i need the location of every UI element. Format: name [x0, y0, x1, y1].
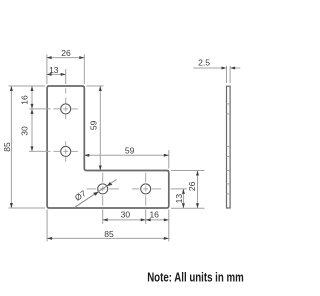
arrow 30 left bottom	[31, 146, 34, 151]
corner hole H3 centerlines	[87, 173, 120, 206]
dim 2.5 for side view	[193, 66, 240, 83]
svg-text:26: 26	[187, 181, 197, 191]
wire: bottom edge extension left	[9, 207, 46, 209]
wire: leg right edge extension up	[83, 55, 85, 85]
svg-text:2.5: 2.5	[198, 57, 210, 67]
wire: left edge extension up	[46, 55, 48, 85]
arrow 13 top left	[47, 73, 52, 76]
arrow 26 right bottom	[196, 203, 199, 208]
wire: dim line 85 bottom	[47, 237, 169, 239]
wire: dim line 30/16 bottom	[103, 219, 169, 221]
wire: corner hole axis extension down	[102, 210, 104, 224]
side view bar	[227, 86, 231, 208]
wire: dim line 59 horizontal	[84, 154, 169, 156]
corner hole H3	[98, 184, 108, 194]
wire: dim line 59 vertical	[99, 86, 101, 171]
wire: bottom edge extension right	[171, 207, 205, 209]
extension lines group	[9, 55, 205, 242]
wire: dim line 26 top	[47, 57, 85, 59]
svg-text:59: 59	[125, 145, 135, 155]
arrow 59 vertical top	[99, 86, 102, 91]
arrow 85 left bottom	[10, 203, 13, 208]
arrow 13 right top	[182, 189, 185, 194]
wire: top-right corner extension right	[87, 85, 104, 87]
arrow 30/16 shared at right hole	[141, 218, 146, 221]
arrow 85 bottom left	[47, 237, 52, 240]
svg-text:26: 26	[61, 48, 71, 58]
svg-text:59: 59	[88, 120, 98, 130]
svg-text:Note: All units in mm: Note: All units in mm	[147, 271, 244, 285]
wire: top edge extension left	[9, 85, 46, 87]
svg-text:30: 30	[20, 126, 30, 136]
arrow 16 left top	[31, 86, 34, 91]
hole H1 centerlines	[29, 88, 78, 119]
wire: dim line 26 right	[197, 171, 199, 209]
arrow 85 left top	[10, 86, 13, 91]
leader line for diameter 7	[74, 180, 116, 208]
plate outline L-shape	[47, 86, 169, 208]
arrowheads	[10, 56, 199, 240]
hole H1	[61, 104, 71, 114]
wire: left edge extension down	[46, 210, 48, 242]
dimension texts	[2, 48, 210, 239]
wire: dim line 85 left	[10, 86, 12, 208]
arrow 26 top right	[79, 56, 84, 59]
wire: dim line 16/30 left	[31, 86, 33, 151]
wire: right hole axis extension down	[145, 210, 147, 224]
arrow 59 horizontal left	[84, 154, 89, 157]
svg-text:30: 30	[121, 209, 131, 219]
wire: dim line 13 right	[182, 189, 184, 208]
arrow 26 right top	[196, 171, 199, 176]
right hole H4	[141, 184, 151, 194]
svg-text:16: 16	[149, 209, 159, 219]
hole H2	[61, 146, 71, 156]
svg-text:13: 13	[49, 65, 59, 75]
arrow 16/30 shared at hole1	[31, 104, 34, 109]
wire: right holes axis extension right	[171, 188, 187, 190]
svg-text:16: 16	[20, 95, 30, 105]
arrow 85 bottom right	[164, 237, 169, 240]
arrow leader upper-right	[107, 182, 113, 186]
hole H2 centerlines	[29, 141, 78, 162]
dimension lines group	[11, 58, 197, 239]
right hole H4 centerlines	[132, 173, 161, 206]
arrow 26 top left	[47, 56, 52, 59]
arrow 59 horizontal right	[164, 154, 169, 157]
arrow 59 vertical bottom	[99, 166, 102, 171]
wire: dim line 13 top	[47, 73, 66, 75]
arrow 13 right bottom	[182, 203, 185, 208]
svg-text:13: 13	[174, 194, 184, 204]
svg-text:85: 85	[104, 229, 114, 239]
svg-text:85: 85	[2, 142, 12, 152]
wire: horizontal-leg corner extension up	[168, 150, 170, 169]
wire: leg top edge extension right	[171, 170, 205, 172]
arrow 13 top right	[61, 73, 66, 76]
arrow 30 bottom left	[103, 218, 108, 221]
arrow 16 bottom right	[164, 218, 169, 221]
wire: hole1 axis extension up	[65, 69, 67, 84]
wire: right edge extension down	[168, 210, 170, 242]
arrow leader lower-left	[93, 192, 99, 196]
